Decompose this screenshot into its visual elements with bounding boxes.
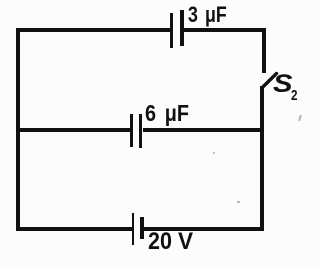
wire middle segment left of C2 <box>16 128 130 132</box>
battery B1 long plate <box>132 213 135 245</box>
wire right side lower <box>260 86 264 231</box>
wire top segment right of C1 <box>183 28 266 32</box>
capacitor C1 3uF left plate <box>170 13 173 48</box>
capacitor C1 3uF right plate <box>180 10 184 46</box>
capacitor C2 6uF right plate <box>139 114 143 148</box>
speck <box>298 115 301 121</box>
wire middle segment right of C2 <box>143 128 263 132</box>
battery B1 short plate <box>140 217 144 239</box>
wire left side <box>16 28 20 231</box>
wire right side upper <box>262 28 266 73</box>
capacitor C2 6uF left plate <box>130 114 134 147</box>
wire bottom segment right of battery <box>144 227 264 231</box>
label 3 uF <box>188 2 227 28</box>
speck <box>237 201 240 203</box>
label S2 <box>273 70 293 99</box>
label 6 uF <box>145 100 189 127</box>
speck <box>213 152 215 154</box>
wire bottom segment left of battery <box>16 227 132 231</box>
label 20 V <box>148 228 172 256</box>
wire top segment left of C1 <box>16 28 171 32</box>
